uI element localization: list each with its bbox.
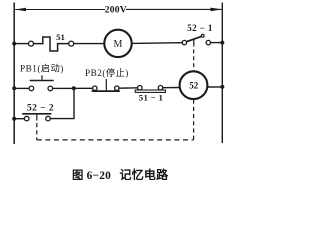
svg-text:PB2(停止): PB2(停止) [85, 67, 129, 78]
wire coil 52 to right bus [207, 86, 222, 88]
wire 52-1 to right bus [210, 42, 222, 44]
junction dot left bus row2 [12, 86, 16, 90]
wire 51-1 to coil 52 [163, 87, 181, 89]
terminal circle row1 right of 51 [69, 41, 74, 46]
dimension line 200V right segment with arrowhead [126, 8, 222, 12]
svg-text:51: 51 [56, 32, 65, 42]
mechanical link 52-2 stem (dashed) [36, 123, 38, 140]
mechanical link horizontal (dashed) [37, 139, 194, 141]
wire PB2 to 51-1 [119, 87, 138, 89]
svg-text:51 − 1: 51 − 1 [139, 93, 163, 103]
svg-text:M: M [114, 39, 123, 50]
contact 52-1 (knife switch) [182, 34, 210, 44]
mechanical link 52-1 to coil 52 (solid stub then dashed) [193, 39, 195, 70]
dimension line 200V left segment with arrowhead [15, 8, 106, 12]
contact 51-1 (NC bridge contact of relay 51) [135, 86, 165, 93]
junction node dot between PB1 and PB2 [72, 86, 76, 90]
wire PB1 to PB2 through node [53, 87, 93, 89]
svg-text:图 6−20: 图 6−20 [72, 169, 111, 180]
right supply bus L2 [221, 3, 223, 144]
overcurrent relay heater 51 (square-wave element) [33, 37, 68, 51]
pushbutton PB2 stop (NC bridge contact) [92, 79, 120, 91]
svg-text:52 − 1: 52 − 1 [187, 23, 213, 33]
motor M [104, 30, 131, 57]
wire bus to terminal row1 [14, 43, 28, 45]
wire bus to PB1 [14, 87, 29, 89]
svg-text:52: 52 [189, 81, 199, 91]
left supply bus L1 [13, 3, 15, 145]
wire bus to 52-2 [14, 118, 24, 120]
junction dot right bus row1 [220, 41, 224, 45]
wire 52-2 up to node between PB1 and PB2 [50, 88, 74, 118]
contact 52-2 holding contact (NO bridge contact) [22, 114, 51, 121]
wire motor to contact 52-1 [132, 42, 183, 45]
junction dot right bus row2 [220, 85, 224, 89]
mechanical link below coil 52 (dashed) [193, 100, 195, 140]
svg-text:200V: 200V [105, 5, 127, 16]
junction dot left bus row1 [12, 42, 16, 46]
terminal circle row1 left [29, 41, 34, 46]
pushbutton PB1 start (NO bridge contact) [29, 75, 54, 90]
junction dot left bus row3 [12, 117, 16, 121]
relay coil 52 [180, 71, 208, 99]
svg-text:PB1(启动): PB1(启动) [20, 62, 64, 73]
wire terminal to motor [74, 43, 105, 45]
svg-text:52 − 2: 52 − 2 [27, 104, 54, 114]
svg-text:记忆电路: 记忆电路 [120, 167, 170, 180]
